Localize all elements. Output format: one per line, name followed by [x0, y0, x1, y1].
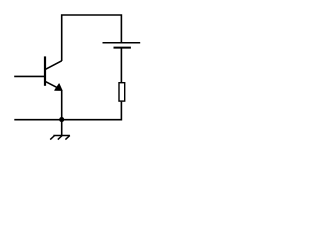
- ground hatch 1: [50, 136, 54, 140]
- ground lead: [61, 120, 63, 136]
- ground bar: [53, 135, 70, 137]
- battery B1: [103, 43, 141, 48]
- emitter arrow: [55, 84, 63, 91]
- base bar: [44, 56, 46, 85]
- wire: base lead: [14, 75, 45, 77]
- wire: collector lead up, top rail, down to battery +: [62, 15, 122, 61]
- junction dot: [59, 117, 64, 122]
- ground hatch 2: [58, 136, 62, 140]
- wire: emitter lead down to bottom rail: [61, 90, 63, 120]
- ground hatch 3: [65, 136, 69, 140]
- emitter diagonal: [46, 82, 62, 90]
- wire: resistor bottom, bottom rail to left: [14, 102, 121, 120]
- resistor R1: [119, 83, 125, 101]
- collector diagonal: [46, 61, 62, 70]
- wire: battery - to resistor top: [120, 48, 122, 82]
- ground: [50, 120, 70, 140]
- transistor Q1: [45, 56, 62, 90]
